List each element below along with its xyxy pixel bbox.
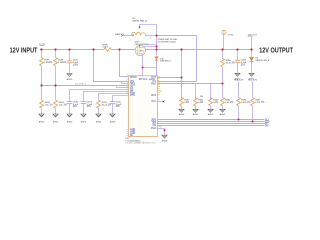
wire rail tap x119.5 to IC pin xyxy=(120,50,129,77)
wire gate vertical down to IC HG pin xyxy=(196,36,198,82)
op-amp U17 IC body xyxy=(129,76,158,137)
junction (156.5,49.5) xyxy=(155,48,157,50)
svg-text:ON: ON xyxy=(265,125,269,127)
wire bundle SDA xyxy=(158,121,265,123)
svg-text:AGND: AGND xyxy=(81,120,87,123)
wire FET source down xyxy=(143,54,157,68)
junction rail x222.5 xyxy=(221,48,223,50)
transistor Q100 MOSFET xyxy=(135,45,145,55)
ground AGND x98.5 xyxy=(96,114,101,117)
node 12V_OUT tag xyxy=(251,37,253,50)
resistor R696 shunt on rail xyxy=(104,48,111,52)
wire stub IC pin y83.5 xyxy=(122,82,129,83)
junction rail x69.5 xyxy=(68,48,70,50)
wire bundle SCL xyxy=(158,119,265,121)
wire IC PGD pin to ground xyxy=(158,128,165,130)
svg-text:SDA_12V: SDA_12V xyxy=(234,79,244,82)
junction rail x41.5 xyxy=(40,48,42,50)
junction rail x181.5 xyxy=(180,48,182,50)
svg-text:PG: PG xyxy=(159,127,162,129)
svg-text:FBO: FBO xyxy=(151,83,156,85)
wire inductor to gate node xyxy=(146,35,157,37)
resistor R698 column row1 xyxy=(55,50,57,58)
svg-text:(C) 2013 LINEAR TECHNOLOGY: (C) 2013 LINEAR TECHNOLOGY xyxy=(126,141,157,144)
svg-text:SHDN: SHDN xyxy=(130,77,137,79)
svg-text:SS3P6LHM3_A: SS3P6LHM3_A xyxy=(132,19,147,22)
svg-text:1%: 1% xyxy=(200,102,203,104)
resistor R686 x238.5 xyxy=(238,81,240,97)
svg-text:1%: 1% xyxy=(247,102,250,104)
svg-text:12V_MON_S: 12V_MON_S xyxy=(75,84,87,86)
resistor R684 x222.5 xyxy=(222,50,224,59)
resistor R695 column x41.5 row2 xyxy=(41,86,43,100)
svg-text:1%: 1% xyxy=(49,62,52,64)
junction (222.5,83.5) xyxy=(221,82,223,84)
capacitor C618 column x69.5 row2 xyxy=(70,90,129,102)
junction rail x251.5 xyxy=(250,48,252,50)
ground AGND x69.5 xyxy=(67,114,72,117)
junction rail x55.5 xyxy=(54,48,56,50)
junction rail x93.5 xyxy=(92,48,94,50)
wire IC HG pin to gate vertical xyxy=(158,81,197,83)
wire gate node down through rail xyxy=(156,36,158,56)
svg-text:AGND: AGND xyxy=(53,120,59,123)
IC left edge pin stubs xyxy=(127,76,129,78)
inductor L10 xyxy=(131,32,145,35)
svg-text:1%: 1% xyxy=(186,102,189,104)
svg-text:12V INPUT: 12V INPUT xyxy=(10,47,38,54)
svg-text:1%: 1% xyxy=(49,104,52,106)
svg-text:GATE: GATE xyxy=(149,78,156,81)
wire bundle ON xyxy=(158,125,265,127)
svg-text:25V: 25V xyxy=(73,106,78,108)
capacitor C696 x237.5 xyxy=(237,50,239,61)
svg-text:12V OUTPUT: 12V OUTPUT xyxy=(259,47,293,54)
resistor R681 x195.5 xyxy=(194,97,198,105)
svg-text:25V: 25V xyxy=(116,106,121,108)
wire tag to inductor xyxy=(123,35,132,37)
svg-text:1%: 1% xyxy=(63,62,66,64)
wire rail shunt to FET xyxy=(111,49,135,51)
svg-text:AGND: AGND xyxy=(179,113,185,116)
svg-text:CPO: CPO xyxy=(151,95,156,97)
IC right edge pin stubs xyxy=(158,76,160,78)
inductor polarity dot xyxy=(132,34,134,36)
ground AGND x222.5 xyxy=(220,109,225,112)
svg-text:AGND: AGND xyxy=(39,120,45,123)
FET gate dot xyxy=(139,45,140,46)
junction rail x237.5 xyxy=(236,48,238,50)
junction (156.5,35.5) xyxy=(155,34,157,36)
resistor R680 x181.5 xyxy=(180,97,184,105)
capacitor C617 column x83.5 row2 xyxy=(84,92,129,102)
junction (41.5,85.5) xyxy=(40,84,42,86)
svg-text:INTVCC: INTVCC xyxy=(139,79,148,81)
svg-text:VCC: VCC xyxy=(151,101,156,103)
wire FET source to IC top pin xyxy=(142,68,144,76)
svg-text:1%: 1% xyxy=(215,102,218,104)
junction (156.5,46.5) xyxy=(155,45,157,47)
resistor R687 x252.5 xyxy=(252,81,254,97)
svg-text:TP10: TP10 xyxy=(228,35,234,37)
svg-text:NC: NC xyxy=(130,135,134,137)
svg-text:RTN: RTN xyxy=(130,95,135,97)
ground AGND x237.5 xyxy=(235,73,240,76)
ground AGND x112.5 xyxy=(110,114,115,117)
svg-text:25V: 25V xyxy=(241,64,246,66)
junction (55.5,85.5) xyxy=(54,84,56,86)
svg-text:25V: 25V xyxy=(87,106,92,108)
svg-text:1%: 1% xyxy=(261,102,264,104)
svg-text:AGND: AGND xyxy=(67,120,73,123)
wire gate snubber loop xyxy=(140,25,157,36)
junction (142.5,67.5) xyxy=(142,67,144,69)
svg-text:PLACE NET CLOSE: PLACE NET CLOSE xyxy=(158,38,178,41)
capacitor C616 column row1 xyxy=(69,50,71,62)
diode D5 x251.5 xyxy=(251,50,253,56)
node plus mark xyxy=(138,26,140,28)
svg-text:1%: 1% xyxy=(230,102,233,104)
junction (238.5,119.5) xyxy=(237,118,239,120)
svg-text:PGD: PGD xyxy=(151,128,156,130)
wire rail tap x93.5 to IC pin xyxy=(94,50,129,82)
svg-text:1%: 1% xyxy=(107,104,110,106)
wire main input rail xyxy=(40,49,104,51)
svg-text:AGND: AGND xyxy=(96,120,102,123)
ground AGND x251.5 xyxy=(249,73,254,76)
wire drop to R681 xyxy=(195,84,197,100)
junction rail x119.5 xyxy=(118,48,120,50)
svg-text:ON: ON xyxy=(153,125,157,127)
svg-text:100V: 100V xyxy=(73,64,79,66)
svg-text:AGND: AGND xyxy=(110,120,116,123)
svg-text:SS3P6L-M3_A: SS3P6L-M3_A xyxy=(255,59,269,62)
ground AGND x195.5 xyxy=(193,109,198,112)
testpoint TP10 xyxy=(222,30,226,34)
IC bottom-left pin stubs xyxy=(127,129,129,131)
wire IC OUT pin to rail column xyxy=(158,77,182,79)
svg-text:CMDSH2-3: CMDSH2-3 xyxy=(160,61,171,63)
wire bundle INT xyxy=(158,123,265,125)
junction (164.5,130.3) xyxy=(164,129,166,131)
svg-text:AGND: AGND xyxy=(208,113,214,116)
resistor R697 column row1 xyxy=(41,50,43,58)
svg-text:0.007: 0.007 xyxy=(103,47,109,49)
diode D10 xyxy=(155,57,159,60)
svg-text:AGND: AGND xyxy=(193,113,199,116)
resistor R685 x222.5 row2 xyxy=(221,97,225,105)
wire drop to R682 xyxy=(210,84,212,100)
ground AGND x181.5 xyxy=(179,109,184,112)
ground AGND cap C616 xyxy=(67,74,72,77)
wire x181.5 vertical rail to R680 xyxy=(181,50,183,100)
svg-text:AGND: AGND xyxy=(220,113,226,116)
capacitor C615 column x112.5 row2 xyxy=(113,96,129,102)
ground AGND x41.5 xyxy=(39,114,44,117)
svg-text:AGND: AGND xyxy=(162,140,168,143)
resistor R682 x210.5 xyxy=(209,97,213,105)
wire FET drain stubs to node xyxy=(144,44,157,46)
wire gate node right xyxy=(157,35,197,37)
svg-text:1%: 1% xyxy=(231,62,234,64)
svg-text:SCL_12V: SCL_12V xyxy=(248,80,258,82)
wire bus to IC xyxy=(42,85,129,87)
wire D10 to node xyxy=(156,60,158,75)
junction (252.5,121.5) xyxy=(251,120,253,122)
wire IC FB pin right xyxy=(158,83,223,85)
wire IC NC pin with X xyxy=(158,101,164,103)
ground AGND x83.5 xyxy=(81,114,86,117)
junction (181.5,77.5) xyxy=(180,76,182,78)
resistor R699 column x55.5 row2 xyxy=(55,86,57,100)
ground AGND x55.5 xyxy=(53,114,58,117)
svg-text:TO MOSFET Q100: TO MOSFET Q100 xyxy=(158,42,177,44)
wire stub IC pin y87.5 xyxy=(117,86,129,87)
ground AGND x210.5 xyxy=(208,109,213,112)
ground AGND x164.5 xyxy=(162,135,167,138)
svg-text:AGND: AGND xyxy=(67,78,73,81)
svg-text:1%: 1% xyxy=(63,104,66,106)
wire rail FET to output xyxy=(144,49,253,51)
resistor R700 column x98.5 row2 xyxy=(99,94,129,100)
